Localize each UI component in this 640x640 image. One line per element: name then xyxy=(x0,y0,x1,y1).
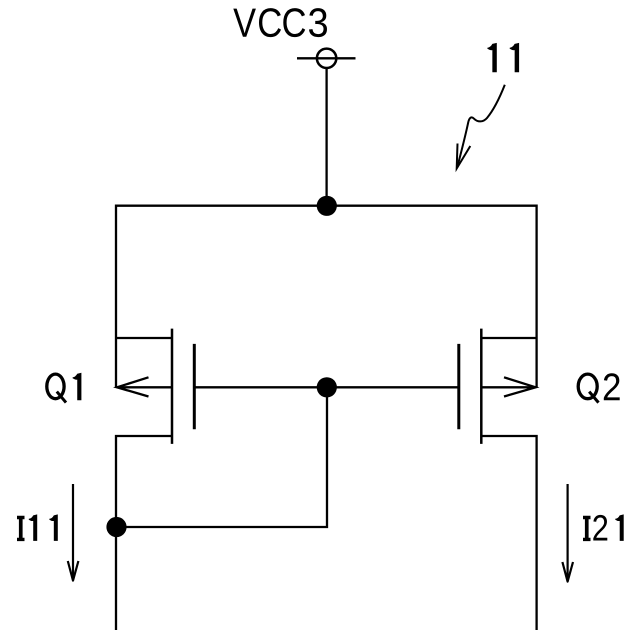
VCC3 terminal circle xyxy=(317,49,336,68)
label Q2 letter Q xyxy=(578,374,597,399)
net VCC3 label digit 3 xyxy=(309,8,327,37)
transistor Q2 gate bar xyxy=(457,344,460,429)
transistor Q1 channel line xyxy=(171,329,174,444)
transistor Q2 body arrowhead xyxy=(504,377,536,396)
label 11 first digit xyxy=(487,43,496,72)
label Q2 digit 2 xyxy=(604,373,620,400)
wire gate node down and across to I11 node xyxy=(116,387,327,527)
label 11 second digit xyxy=(510,43,519,72)
junction top node xyxy=(317,196,337,216)
transistor Q2 source stub (top) xyxy=(481,337,536,339)
label I11 serifed I xyxy=(17,516,25,541)
current arrow I21 xyxy=(562,484,573,582)
transistor Q1 body arrowhead xyxy=(117,377,149,396)
transistor Q2 channel line xyxy=(480,329,483,444)
transistor Q2 drain stub and right lower rail xyxy=(481,436,536,630)
wire top horizontal rail with left and right rails xyxy=(116,206,537,388)
label I11 second digit 1 xyxy=(49,514,57,541)
net VCC3 label letter C xyxy=(259,8,281,37)
wire VCC3 terminal to top node xyxy=(325,68,327,206)
transistor Q1 body line xyxy=(117,386,172,388)
transistor Q2 body line xyxy=(481,386,535,388)
wire gate rail Q1 to Q2 xyxy=(194,386,458,388)
net VCC3 label letter C xyxy=(283,8,305,37)
junction gate node xyxy=(317,377,337,397)
label I21 serifed I xyxy=(583,516,591,541)
label Q1 letter Q xyxy=(47,374,64,399)
label I21 digit 2 xyxy=(593,515,607,541)
label I21 digit 1 xyxy=(615,514,623,541)
junction I11 node xyxy=(106,517,126,537)
transistor Q1 source stub (top) xyxy=(116,337,172,339)
label I11 first digit 1 xyxy=(29,514,37,541)
leader arrow for 11 xyxy=(457,85,505,169)
VCC3 terminal crossbar wire xyxy=(297,57,356,59)
transistor Q1 drain stub and left lower rail xyxy=(116,436,172,630)
label Q1 digit 1 xyxy=(73,373,82,400)
transistor Q1 gate bar xyxy=(193,344,196,429)
net VCC3 label letter V xyxy=(233,9,256,37)
current arrow I11 xyxy=(68,484,79,581)
